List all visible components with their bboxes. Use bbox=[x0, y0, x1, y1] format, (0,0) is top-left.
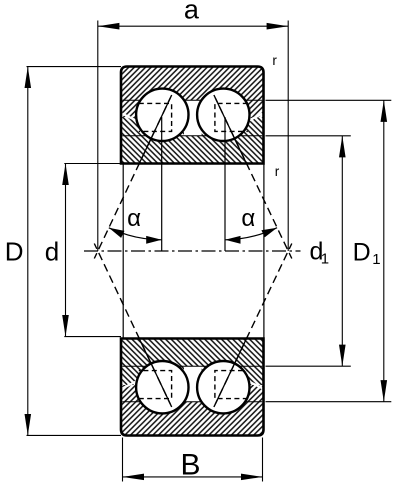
bore silhouette line right bbox=[263, 164, 265, 339]
svg-text:r: r bbox=[275, 164, 280, 179]
angle alpha arc right bbox=[225, 228, 277, 240]
svg-text:α: α bbox=[241, 205, 255, 232]
ball top-right bbox=[197, 89, 249, 141]
raceway channel upper (white gap between rings) bbox=[184, 100, 202, 136]
contact line solid segment in ball top-left bbox=[150, 98, 170, 140]
svg-text:a: a bbox=[184, 0, 200, 24]
outer ring shoulder line lower (D1 level) bbox=[122, 401, 262, 403]
inner ring upper section (hatched) bbox=[121, 117, 264, 164]
svg-text:D: D bbox=[353, 239, 371, 267]
ring separation notch lower left bbox=[122, 382, 136, 389]
svg-text:B: B bbox=[180, 449, 200, 482]
dimension a extension left bbox=[97, 21, 99, 252]
dimension B extension right bbox=[262, 438, 264, 482]
contact line solid segment across inner band bottom-right bbox=[233, 337, 247, 366]
ball bottom-left bbox=[136, 361, 188, 413]
dimension d extension top bbox=[64, 163, 121, 165]
radial line through ball top-right bbox=[224, 117, 226, 251]
dimension d extension bottom bbox=[64, 336, 121, 338]
svg-text:D: D bbox=[5, 236, 24, 266]
contact line solid segment in ball bottom-right bbox=[215, 362, 235, 404]
dimension d1 line bbox=[341, 136, 343, 366]
inner ring lower section (hatched) bbox=[121, 339, 264, 386]
ring separation notch upper right bbox=[249, 114, 262, 121]
contact line top-right (dashed) bbox=[214, 95, 292, 259]
cage dashed outline in ball bottom-right bbox=[215, 371, 248, 399]
bottom block outline bbox=[121, 339, 264, 436]
angle alpha arc left bbox=[109, 228, 162, 240]
dimension D1 line bbox=[383, 100, 385, 401]
dimension B extension left bbox=[122, 438, 124, 482]
alpha arrowhead left-end bbox=[146, 236, 162, 244]
top block outline bbox=[121, 67, 264, 164]
outer ring shoulder line upper (D1 level) bbox=[122, 99, 262, 101]
contact line solid segment across inner band bottom-left bbox=[139, 337, 153, 366]
svg-text:1: 1 bbox=[321, 251, 329, 268]
dimension D line bbox=[27, 67, 29, 436]
inner ring shoulder line lower (d1 level) bbox=[122, 365, 262, 367]
cage dashed outline in ball bottom-left bbox=[139, 371, 172, 399]
svg-text:α: α bbox=[127, 205, 141, 232]
contact line bottom-left (dashed) bbox=[94, 244, 171, 408]
contact line solid segment in ball top-right bbox=[215, 98, 235, 140]
svg-text:1: 1 bbox=[372, 251, 380, 268]
bearing axis centerline bbox=[84, 250, 301, 252]
dimension d1 extension bottom bbox=[266, 365, 351, 367]
radial line through ball top-left bbox=[161, 117, 163, 251]
dimension D extension bottom bbox=[27, 434, 122, 436]
ring separation notch lower right bbox=[249, 382, 262, 389]
dimension D1 extension top bbox=[266, 99, 392, 101]
alpha arrowhead right-end bbox=[225, 236, 241, 244]
dimension d1 extension top bbox=[266, 135, 351, 137]
alpha arrowhead right-start bbox=[261, 228, 277, 238]
ball bottom-right bbox=[197, 361, 249, 413]
svg-text:d: d bbox=[45, 236, 59, 266]
dimension D1 extension bottom bbox=[266, 401, 392, 403]
cage dashed outline in ball top-right bbox=[215, 103, 248, 131]
svg-text:r: r bbox=[272, 53, 277, 68]
outer ring upper section (hatched) bbox=[121, 67, 264, 118]
raceway channel lower (white gap between rings) bbox=[184, 366, 202, 402]
contact line top-left (dashed) bbox=[94, 95, 171, 259]
ring separation notch upper left bbox=[122, 114, 136, 121]
dimension D extension top bbox=[27, 66, 122, 68]
ball top-left bbox=[136, 89, 188, 141]
cage dashed outline in ball top-left bbox=[139, 103, 172, 131]
contact line bottom-right (dashed) bbox=[214, 244, 292, 408]
dimension d line bbox=[65, 163, 67, 336]
contact line solid segment across inner band top-left bbox=[139, 136, 153, 165]
contact line solid segment across inner band top-right bbox=[233, 136, 247, 165]
alpha arrowhead left-start bbox=[109, 228, 125, 238]
dimension a extension right bbox=[287, 21, 289, 252]
bore silhouette line left bbox=[122, 164, 124, 339]
dimension B line bbox=[123, 476, 263, 478]
dimension a line bbox=[98, 25, 288, 27]
contact line solid segment in ball bottom-left bbox=[150, 362, 170, 404]
outer ring lower section (hatched) bbox=[121, 385, 264, 436]
inner ring shoulder line upper (d1 level) bbox=[122, 135, 262, 137]
